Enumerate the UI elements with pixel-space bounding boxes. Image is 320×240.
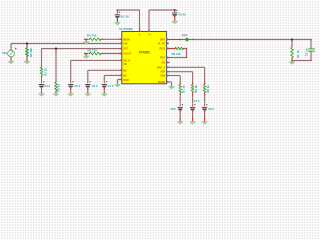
svg-text:V8 5: V8 5 — [170, 107, 176, 111]
svg-text:M2: M2 — [123, 73, 127, 77]
svg-text:IA_RT: IA_RT — [158, 41, 166, 45]
svg-text:XTR300: XTR300 — [139, 51, 151, 55]
svg-text:Iout: Iout — [182, 33, 188, 37]
svg-text:RGF: RGF — [160, 56, 166, 60]
svg-text:DRV_S: DRV_S — [157, 65, 166, 69]
svg-text:IMON: IMON — [123, 37, 130, 41]
svg-text:VIN: VIN — [2, 51, 7, 55]
svg-text:IAOUT: IAOUT — [123, 52, 131, 56]
svg-text:OD_N: OD_N — [123, 58, 130, 62]
svg-text:V9 5: V9 5 — [208, 107, 214, 111]
svg-text:R4 750: R4 750 — [87, 33, 97, 37]
svg-text:DGND: DGND — [158, 80, 166, 84]
svg-text:R8 1k: R8 1k — [194, 85, 198, 93]
svg-text:RS: RS — [162, 61, 166, 65]
svg-text:R3 1k: R3 1k — [57, 84, 61, 92]
svg-text:V2 0: V2 0 — [92, 84, 98, 88]
svg-text:C1 1n: C1 1n — [304, 48, 308, 56]
svg-text:RL 1k: RL 1k — [296, 50, 300, 58]
svg-text:VSP: VSP — [160, 70, 165, 74]
svg-text:M1: M1 — [123, 68, 127, 72]
svg-text:V5 20: V5 20 — [178, 13, 186, 17]
svg-text:OD: OD — [123, 62, 127, 66]
svg-text:V1 5: V1 5 — [108, 84, 114, 88]
svg-text:V7 5: V7 5 — [194, 99, 200, 103]
svg-text:VSN: VSN — [160, 74, 165, 78]
svg-text:DRV: DRV — [160, 38, 166, 42]
svg-text:U1 XTR300: U1 XTR300 — [119, 27, 133, 31]
svg-text:R9 1k: R9 1k — [206, 85, 210, 93]
svg-text:R5 10k: R5 10k — [29, 48, 33, 58]
svg-text:R1 750: R1 750 — [88, 49, 98, 53]
svg-text:R7 1k: R7 1k — [182, 85, 186, 93]
svg-text:GND: GND — [123, 78, 129, 82]
svg-text:VIN: VIN — [123, 41, 127, 45]
svg-text:V4 3: V4 3 — [44, 84, 50, 88]
svg-text:V3 5: V3 5 — [74, 84, 80, 88]
svg-text:V6 -20: V6 -20 — [120, 15, 129, 19]
svg-text:V-: V- — [139, 33, 141, 36]
svg-text:SET: SET — [123, 47, 128, 51]
svg-text:R2 1k: R2 1k — [43, 68, 47, 76]
svg-text:R6 10k: R6 10k — [172, 52, 182, 56]
svg-text:RGD: RGD — [160, 47, 166, 51]
